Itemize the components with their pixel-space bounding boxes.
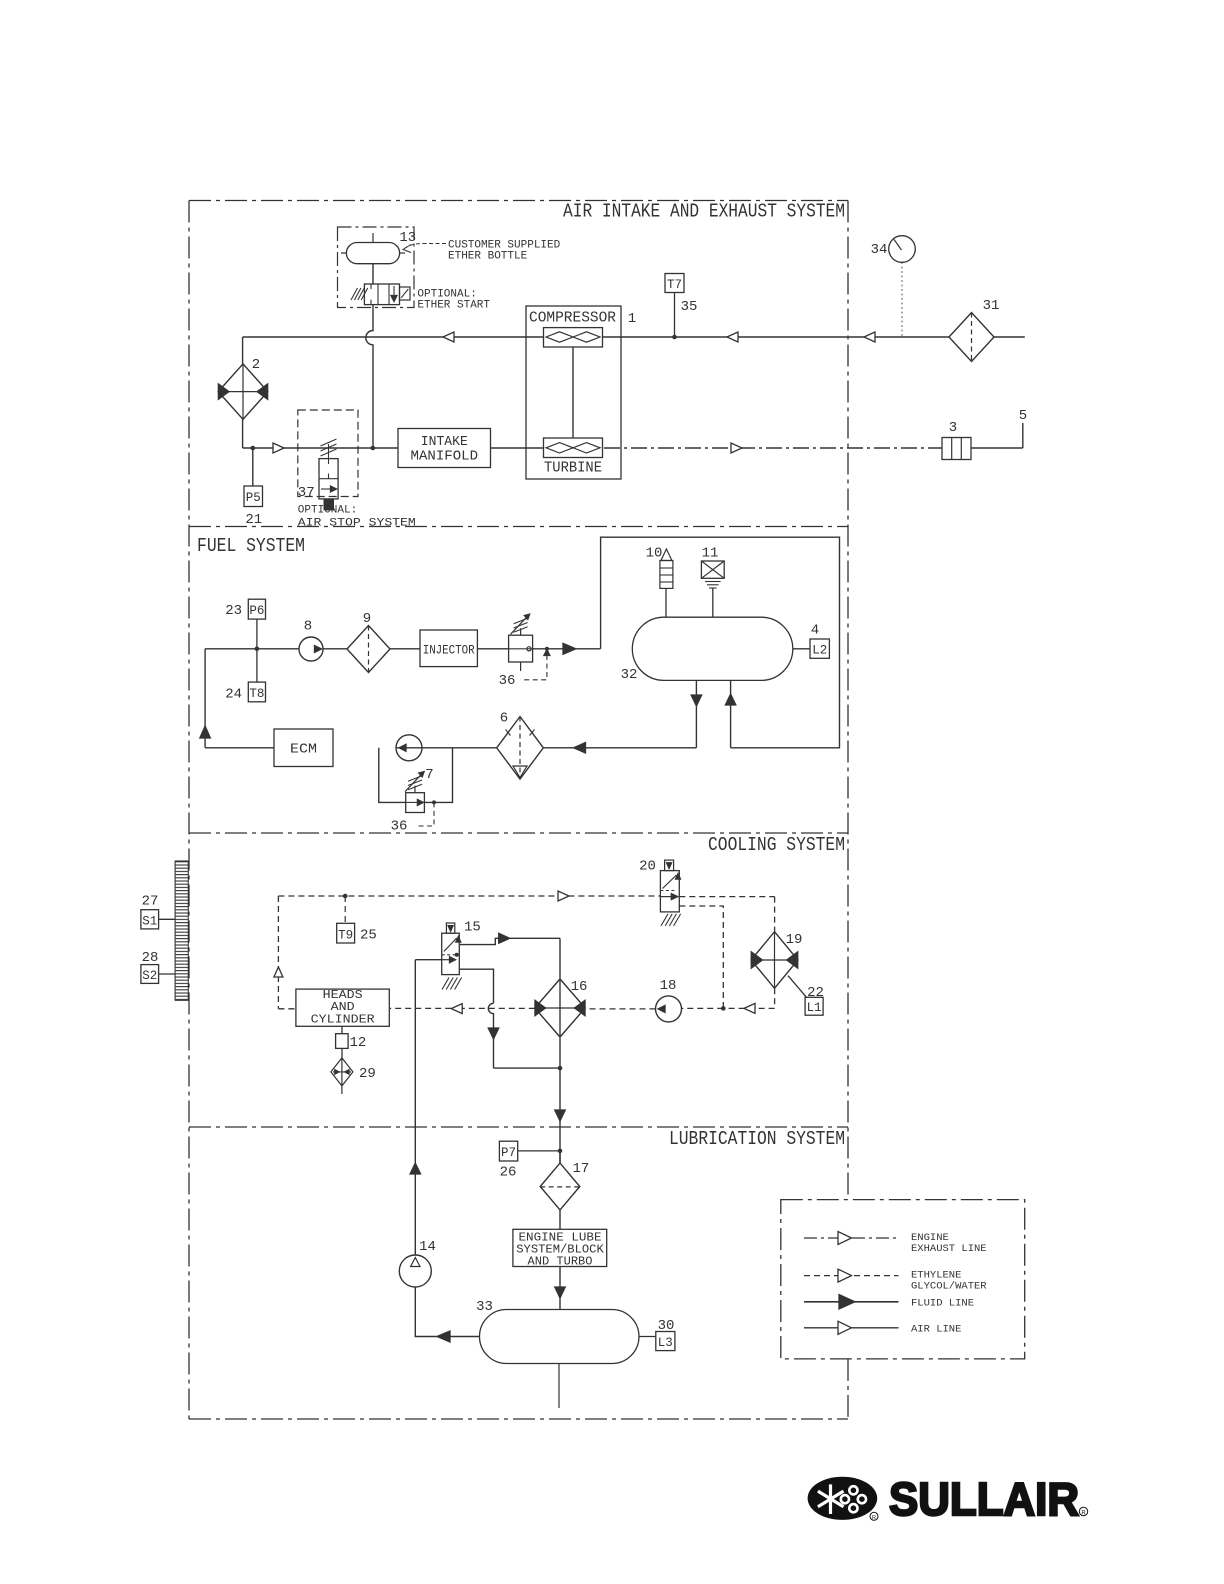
svg-text:21: 21 [245,512,262,528]
svg-text:MANIFOLD: MANIFOLD [411,450,479,465]
svg-text:10: 10 [646,546,663,562]
svg-text:P6: P6 [249,604,264,618]
svg-text:ECM: ECM [290,742,317,758]
svg-text:8: 8 [304,619,312,635]
svg-text:CYLINDER: CYLINDER [311,1013,375,1027]
svg-text:24: 24 [225,687,242,703]
svg-text:L1: L1 [807,1001,822,1015]
svg-text:T8: T8 [249,687,264,701]
svg-text:16: 16 [571,979,588,995]
svg-text:12: 12 [350,1035,367,1051]
svg-text:28: 28 [142,950,159,966]
svg-text:3: 3 [949,420,957,436]
svg-text:AND TURBO: AND TURBO [528,1254,593,1268]
svg-text:L3: L3 [658,1336,673,1350]
svg-text:27: 27 [142,894,159,910]
svg-text:L2: L2 [812,644,827,658]
svg-text:ETHER START: ETHER START [417,300,490,312]
svg-text:19: 19 [786,932,803,948]
svg-text:29: 29 [359,1066,376,1082]
svg-text:11: 11 [702,546,719,562]
svg-text:35: 35 [681,299,698,315]
svg-text:INTAKE: INTAKE [421,435,468,450]
svg-text:34: 34 [871,242,888,258]
svg-text:AIR STOP SYSTEM: AIR STOP SYSTEM [298,518,416,530]
svg-text:P7: P7 [501,1146,516,1160]
svg-text:COOLING SYSTEM: COOLING SYSTEM [708,834,845,856]
svg-text:22: 22 [807,985,824,1001]
svg-text:17: 17 [573,1161,590,1177]
svg-text:31: 31 [983,298,1000,314]
svg-text:TURBINE: TURBINE [544,461,602,477]
svg-text:33: 33 [476,1299,493,1315]
svg-text:13: 13 [399,230,416,246]
svg-text:FUEL SYSTEM: FUEL SYSTEM [197,535,305,557]
svg-text:T7: T7 [667,278,682,292]
svg-text:32: 32 [621,667,638,683]
svg-text:25: 25 [360,928,377,944]
svg-text:R: R [872,1515,876,1521]
svg-text:37: 37 [298,485,315,501]
svg-text:FLUID LINE: FLUID LINE [911,1298,974,1310]
svg-text:18: 18 [660,978,677,994]
svg-text:36: 36 [499,673,516,689]
svg-text:9: 9 [363,611,371,627]
svg-text:S1: S1 [142,915,157,929]
svg-text:T9: T9 [338,929,353,943]
svg-text:EXHAUST LINE: EXHAUST LINE [911,1243,987,1255]
svg-text:COMPRESSOR: COMPRESSOR [529,311,616,327]
svg-text:ETHER BOTTLE: ETHER BOTTLE [448,251,528,263]
svg-text:LUBRICATION SYSTEM: LUBRICATION SYSTEM [669,1128,845,1150]
svg-text:23: 23 [225,603,242,619]
svg-text:AIR INTAKE AND EXHAUST SYSTEM: AIR INTAKE AND EXHAUST SYSTEM [563,201,845,223]
svg-text:2: 2 [252,357,260,373]
svg-text:6: 6 [500,711,508,727]
svg-text:14: 14 [419,1239,436,1255]
svg-text:7: 7 [425,767,433,783]
svg-text:15: 15 [464,920,481,936]
svg-text:4: 4 [811,623,819,639]
svg-text:20: 20 [639,859,656,875]
svg-text:INJECTOR: INJECTOR [423,643,475,658]
svg-text:S2: S2 [142,969,157,983]
svg-text:R: R [1081,1511,1086,1517]
svg-text:5: 5 [1019,408,1027,424]
svg-text:26: 26 [500,1165,517,1181]
svg-text:36: 36 [391,819,408,835]
svg-text:AIR LINE: AIR LINE [911,1324,961,1336]
svg-text:SULLAIR: SULLAIR [889,1473,1079,1525]
svg-text:GLYCOL/WATER: GLYCOL/WATER [911,1281,987,1293]
svg-text:30: 30 [658,1318,675,1334]
svg-text:1: 1 [628,311,636,327]
svg-text:OPTIONAL:: OPTIONAL: [298,505,357,517]
svg-text:P5: P5 [246,491,261,505]
